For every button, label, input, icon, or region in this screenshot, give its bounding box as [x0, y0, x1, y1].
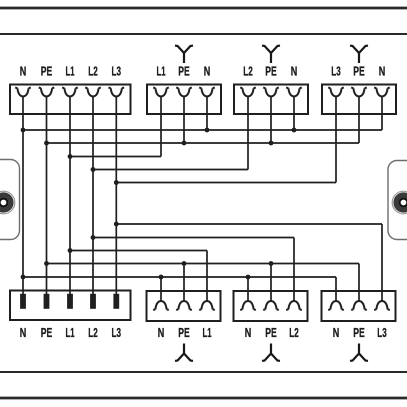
svg-text:N: N	[291, 64, 298, 79]
wire N main vertical (X1 to X5)	[22, 97, 24, 295]
wire N drop to X4	[381, 97, 383, 131]
junction N top bus tap	[21, 128, 26, 133]
wire L1 top bus	[70, 156, 161, 158]
terminal block X2 (top outgoing L1 PE N)	[147, 85, 221, 115]
right mounting screw	[392, 191, 407, 214]
junction L2 bottom bus tap	[91, 235, 96, 240]
X5 terminal labels N PE L1 L2 L3	[20, 325, 121, 340]
junction PE bottom bus at x=271	[269, 261, 274, 266]
junction PE top bus at x=271	[269, 141, 274, 146]
junction L3 bottom bus tap	[114, 222, 119, 227]
svg-text:L2: L2	[88, 325, 98, 340]
junction PE top bus at x=184	[182, 141, 187, 146]
terminal block X7 (bottom outgoing N PE L2)	[234, 291, 308, 321]
svg-text:L2: L2	[243, 64, 253, 79]
X8 terminal labels N PE L3	[333, 325, 387, 340]
junction PE bottom bus tap	[44, 261, 49, 266]
svg-text:L1: L1	[157, 64, 166, 79]
wire L3 main vertical (X1 to X5)	[115, 97, 117, 295]
wire PE drop to X4	[358, 97, 360, 144]
svg-text:N: N	[20, 325, 27, 340]
svg-text:N: N	[379, 64, 386, 79]
wire L1 drop to X2	[160, 97, 162, 157]
junction L1 top bus tap	[68, 154, 73, 159]
wire L2 main vertical (X1 to X5)	[92, 97, 94, 295]
cable exit symbol below X8	[350, 344, 368, 361]
svg-text:L2: L2	[289, 325, 299, 340]
wire N feed to X6	[160, 277, 162, 301]
svg-text:PE: PE	[178, 64, 190, 79]
junction L1 bottom bus tap	[68, 248, 73, 253]
wire PE feed to X8	[358, 264, 360, 301]
cable entry symbol above X4	[350, 46, 368, 63]
wire N bottom bus	[23, 276, 336, 278]
junction PE bottom bus at x=184	[182, 261, 187, 266]
bottom flange line	[0, 397, 407, 400]
svg-text:PE: PE	[41, 325, 53, 340]
wire L2 bottom bus	[93, 237, 294, 239]
wire N feed to X7	[247, 277, 249, 301]
wire L2 drop to X3	[247, 97, 249, 170]
enclosure bottom wall	[0, 371, 407, 373]
wire N drop to X3	[293, 97, 295, 131]
wire L3 top bus	[116, 182, 336, 184]
X6 terminal labels N PE L1	[158, 325, 212, 340]
wire PE feed to X7	[270, 264, 272, 301]
wire PE drop to X3	[270, 97, 272, 144]
terminal block X3 (top outgoing L2 PE N)	[234, 85, 308, 115]
terminal block X5 (bottom-left, N PE L1 L2 L3, solid clamp bars)	[10, 291, 131, 321]
junction N top bus at x=294	[292, 128, 297, 133]
junction N bottom bus tap	[21, 275, 26, 280]
wire PE main vertical (X1 to X5)	[46, 97, 48, 295]
wire L1 bottom bus	[70, 250, 207, 252]
junction PE top bus tap	[44, 141, 49, 146]
enclosure top wall	[0, 33, 407, 35]
svg-text:N: N	[158, 325, 165, 340]
terminal block X1 (top-left feed, N PE L1 L2 L3)	[10, 85, 131, 115]
X1 terminal labels N PE L1 L2 L3	[20, 64, 121, 79]
junction N top bus at x=207	[205, 128, 210, 133]
right mounting tab	[388, 161, 407, 240]
svg-text:L3: L3	[331, 64, 341, 79]
junction L3 top bus tap	[114, 180, 119, 185]
cable entry symbol above X2	[175, 46, 193, 63]
junction L2 top bus tap	[91, 167, 96, 172]
terminal block X4 (top outgoing L3 PE N)	[322, 85, 396, 115]
X3 terminal labels L2 PE N	[243, 64, 297, 79]
svg-text:L2: L2	[88, 64, 98, 79]
wire L1 feed to X6	[206, 251, 208, 301]
wire L3 drop to X4	[335, 97, 337, 183]
terminal block X8 (bottom outgoing N PE L3)	[322, 291, 396, 321]
svg-text:N: N	[333, 325, 340, 340]
wire L1 main vertical (X1 to X5)	[69, 97, 71, 295]
wire PE bottom bus	[47, 263, 360, 265]
svg-text:L3: L3	[377, 325, 387, 340]
X2 terminal labels L1 PE N	[157, 64, 211, 79]
wire L2 top bus	[93, 169, 248, 171]
wire N drop to X2	[206, 97, 208, 131]
cable exit symbol below X7	[262, 344, 280, 361]
wire L3 feed to X8	[381, 224, 383, 301]
cable exit symbol below X6	[175, 344, 193, 361]
junction N bottom bus at x=161	[159, 275, 164, 280]
svg-text:L3: L3	[112, 64, 122, 79]
svg-text:PE: PE	[265, 64, 277, 79]
wire L2 feed to X7	[293, 238, 295, 301]
left mounting tab	[0, 160, 20, 240]
wire PE drop to X2	[183, 97, 185, 144]
top flange line	[0, 7, 407, 10]
svg-text:PE: PE	[353, 64, 365, 79]
terminal block X6 (bottom outgoing N PE L1)	[147, 291, 221, 321]
svg-text:L3: L3	[112, 325, 122, 340]
wire PE top bus	[47, 142, 360, 144]
svg-text:N: N	[20, 64, 27, 79]
svg-text:N: N	[204, 64, 211, 79]
svg-text:N: N	[245, 325, 252, 340]
svg-text:PE: PE	[178, 325, 190, 340]
svg-text:PE: PE	[41, 64, 53, 79]
wire PE feed to X6	[183, 264, 185, 301]
svg-text:PE: PE	[353, 325, 365, 340]
X4 terminal labels L3 PE N	[331, 64, 385, 79]
wire N top bus	[23, 129, 382, 131]
junction N bottom bus at x=248	[246, 275, 251, 280]
cable entry symbol above X3	[262, 46, 280, 63]
left mounting screw	[0, 191, 15, 214]
svg-text:L1: L1	[66, 64, 75, 79]
svg-text:PE: PE	[265, 325, 277, 340]
X7 terminal labels N PE L2	[245, 325, 299, 340]
wire N feed to X8	[335, 277, 337, 301]
svg-text:L1: L1	[203, 325, 212, 340]
svg-text:L1: L1	[66, 325, 75, 340]
wire L3 bottom bus	[116, 223, 382, 225]
